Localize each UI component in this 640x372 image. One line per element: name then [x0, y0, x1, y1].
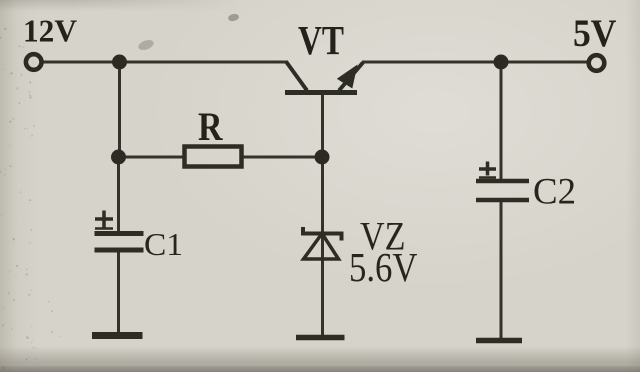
svg-text:C1: C1	[144, 226, 183, 262]
svg-text:12V: 12V	[23, 13, 77, 49]
svg-text:C2: C2	[533, 172, 576, 213]
svg-text:5V: 5V	[573, 12, 617, 55]
svg-text:VT: VT	[298, 17, 344, 63]
svg-text:5.6V: 5.6V	[349, 244, 418, 290]
svg-text:R: R	[198, 104, 223, 149]
